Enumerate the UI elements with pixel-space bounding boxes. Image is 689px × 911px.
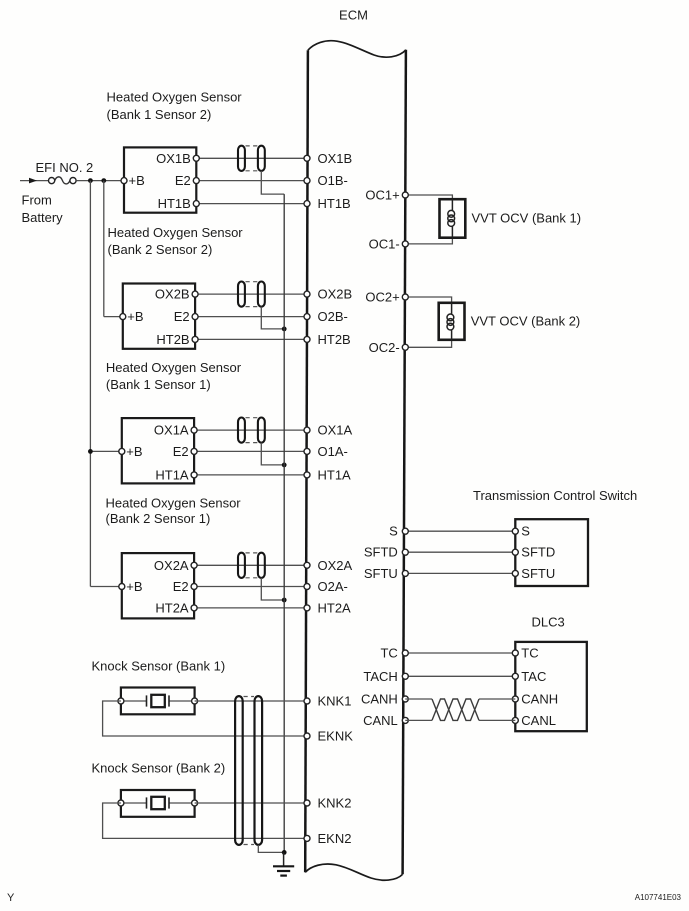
svg-text:A107741E03: A107741E03 — [635, 893, 682, 902]
svg-text:OX2B: OX2B — [155, 287, 190, 302]
svg-text:(Bank 1 Sensor 1): (Bank 1 Sensor 1) — [106, 377, 211, 392]
svg-text:VVT OCV (Bank 1): VVT OCV (Bank 1) — [472, 211, 582, 226]
svg-text:OX1A: OX1A — [318, 423, 353, 438]
svg-text:(Bank 2 Sensor 1): (Bank 2 Sensor 1) — [106, 511, 211, 526]
svg-text:OC1-: OC1- — [369, 236, 400, 251]
svg-text:EFI NO. 2: EFI NO. 2 — [36, 160, 94, 175]
svg-text:CANL: CANL — [521, 713, 556, 728]
svg-text:OC2+: OC2+ — [365, 290, 399, 305]
svg-text:Knock Sensor (Bank 1): Knock Sensor (Bank 1) — [92, 659, 226, 674]
svg-text:TACH: TACH — [363, 669, 397, 684]
svg-text:OX1B: OX1B — [318, 151, 353, 166]
svg-text:HT1B: HT1B — [158, 196, 191, 211]
svg-text:VVT OCV (Bank 2): VVT OCV (Bank 2) — [471, 314, 581, 329]
svg-text:ECM: ECM — [339, 8, 368, 23]
svg-text:Heated Oxygen Sensor: Heated Oxygen Sensor — [106, 496, 242, 511]
svg-text:Heated Oxygen Sensor: Heated Oxygen Sensor — [106, 360, 242, 375]
svg-text:+B: +B — [126, 444, 142, 459]
svg-text:E2: E2 — [173, 444, 189, 459]
svg-text:SFTD: SFTD — [364, 545, 398, 560]
svg-text:EKN2: EKN2 — [318, 831, 352, 846]
svg-text:HT1B: HT1B — [318, 196, 351, 211]
svg-text:(Bank 1 Sensor 2): (Bank 1 Sensor 2) — [107, 107, 212, 122]
svg-text:E2: E2 — [174, 309, 190, 324]
svg-text:HT2A: HT2A — [318, 600, 352, 615]
svg-text:CANH: CANH — [361, 692, 398, 707]
svg-text:OX1A: OX1A — [154, 423, 189, 438]
svg-text:O1A-: O1A- — [318, 444, 348, 459]
svg-text:O2A-: O2A- — [318, 579, 348, 594]
svg-text:Heated Oxygen Sensor: Heated Oxygen Sensor — [107, 90, 243, 105]
svg-text:KNK1: KNK1 — [318, 694, 352, 709]
svg-text:OX2A: OX2A — [154, 558, 189, 573]
svg-text:TAC: TAC — [521, 669, 546, 684]
svg-text:CANH: CANH — [521, 692, 558, 707]
svg-text:(Bank 2 Sensor 2): (Bank 2 Sensor 2) — [108, 242, 213, 257]
svg-text:OC2-: OC2- — [369, 340, 400, 355]
svg-text:SFTU: SFTU — [364, 566, 398, 581]
svg-text:Heated Oxygen Sensor: Heated Oxygen Sensor — [108, 225, 244, 240]
svg-text:TC: TC — [380, 646, 397, 661]
svg-text:HT2B: HT2B — [318, 332, 351, 347]
svg-text:S: S — [389, 524, 398, 539]
svg-text:E2: E2 — [173, 579, 189, 594]
svg-text:Transmission Control Switch: Transmission Control Switch — [473, 488, 637, 503]
svg-text:+B: +B — [126, 579, 142, 594]
svg-text:EKNK: EKNK — [318, 729, 354, 744]
svg-text:SFTD: SFTD — [521, 545, 555, 560]
svg-text:CANL: CANL — [363, 713, 398, 728]
svg-text:Knock Sensor (Bank 2): Knock Sensor (Bank 2) — [92, 761, 226, 776]
svg-text:HT2A: HT2A — [155, 600, 189, 615]
svg-text:HT2B: HT2B — [156, 332, 189, 347]
svg-text:TC: TC — [521, 646, 538, 661]
svg-text:From: From — [22, 193, 52, 208]
svg-text:Battery: Battery — [22, 210, 64, 225]
svg-text:Y: Y — [7, 892, 15, 904]
svg-text:OC1+: OC1+ — [365, 188, 399, 203]
svg-text:E2: E2 — [175, 173, 191, 188]
svg-text:OX2B: OX2B — [318, 287, 353, 302]
svg-text:HT1A: HT1A — [318, 467, 352, 482]
svg-text:DLC3: DLC3 — [532, 615, 565, 630]
svg-text:OX2A: OX2A — [318, 558, 353, 573]
svg-text:SFTU: SFTU — [521, 566, 555, 581]
svg-text:S: S — [521, 524, 530, 539]
svg-text:O2B-: O2B- — [318, 309, 348, 324]
svg-text:OX1B: OX1B — [156, 151, 191, 166]
svg-text:O1B-: O1B- — [318, 173, 348, 188]
svg-text:+B: +B — [127, 309, 143, 324]
svg-text:HT1A: HT1A — [155, 467, 189, 482]
svg-text:KNK2: KNK2 — [318, 796, 352, 811]
svg-text:+B: +B — [129, 173, 145, 188]
